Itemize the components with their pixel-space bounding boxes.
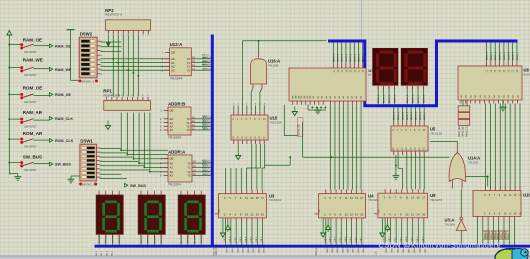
7-segment display unlit at (401.2,48.4) xyxy=(401,48,427,85)
node tag RAM_WE xyxy=(49,67,52,71)
svg-text:SW-SPDT: SW-SPDT xyxy=(24,73,37,77)
svg-text:DBUS_0: DBUS_0 xyxy=(407,94,409,103)
wires bus to U5 top xyxy=(394,107,426,121)
svg-text:DBUS_2: DBUS_2 xyxy=(495,51,497,60)
7-segment display unlit at (372.7,48.4) xyxy=(373,48,398,85)
svg-text:Y3: Y3 xyxy=(187,174,191,178)
bus DBUS bottom horizontal xyxy=(95,245,530,248)
wire U16 output to bus start xyxy=(243,40,327,52)
svg-text:DBUS_6: DBUS_6 xyxy=(420,111,422,120)
svg-text:Q: Q xyxy=(245,138,247,140)
svg-text:74LS164: 74LS164 xyxy=(270,121,282,125)
wires U8 bottom to U10 xyxy=(486,104,521,189)
svg-text:DBUS_5: DBUS_5 xyxy=(508,51,510,60)
svg-text:RAM_AR: RAM_AR xyxy=(23,110,43,115)
svg-text:SW-SPDT: SW-SPDT xyxy=(24,100,37,104)
svg-text:DB_4: DB_4 xyxy=(345,237,347,242)
svg-text:DB_1: DB_1 xyxy=(330,237,332,242)
svg-text:DB_6: DB_6 xyxy=(355,237,357,242)
IC U9 (74LS273) xyxy=(374,189,443,222)
svg-text:Q: Q xyxy=(405,149,407,151)
svg-text:DBUS_6: DBUS_6 xyxy=(513,51,515,60)
svg-text:ABUS_2: ABUS_2 xyxy=(202,167,211,170)
resistor pack RP2 xyxy=(105,8,150,37)
svg-text:Q: Q xyxy=(410,149,412,151)
svg-text:SW-SPDT: SW-SPDT xyxy=(24,125,37,129)
svg-text:DBUS_7: DBUS_7 xyxy=(363,53,365,62)
switch SW_BUS (SW-SPDT) xyxy=(8,155,49,173)
svg-text:DBUS_1: DBUS_1 xyxy=(338,53,340,62)
wires U5 bottom to U9 xyxy=(398,155,424,189)
svg-text:U12:A: U12:A xyxy=(170,42,184,47)
svg-text:ABUS_5: ABUS_5 xyxy=(202,118,211,121)
node tag RAM_OE xyxy=(49,44,52,48)
svg-text:ABUS_3: ABUS_3 xyxy=(202,170,211,173)
svg-text:DB_0: DB_0 xyxy=(224,237,226,242)
svg-text:DBUS_1: DBUS_1 xyxy=(232,244,234,253)
svg-text:CLK: CLK xyxy=(319,208,321,213)
svg-text:DBUS_7: DBUS_7 xyxy=(424,111,426,120)
ground below U8 xyxy=(502,104,504,107)
svg-text:DBUS_2: DBUS_2 xyxy=(418,94,420,103)
ground for switch rail xyxy=(17,174,19,177)
wires U4 to DBUS xyxy=(324,222,365,253)
wires inverter xyxy=(460,189,462,245)
svg-text:ABUS_1: ABUS_1 xyxy=(105,236,108,243)
svg-text:RAM_WE: RAM_WE xyxy=(458,126,461,137)
svg-text:74LS08: 74LS08 xyxy=(268,64,279,68)
svg-text:DBUS_4: DBUS_4 xyxy=(411,111,413,120)
svg-text:ADDR:B: ADDR:B xyxy=(168,101,185,106)
svg-text:74LS244: 74LS244 xyxy=(168,183,181,187)
wires U13 bottom to U4 xyxy=(331,105,361,190)
svg-text:DBUS_7: DBUS_7 xyxy=(517,51,519,60)
ground below U5 xyxy=(395,155,397,176)
svg-text:SW-SPDT: SW-SPDT xyxy=(24,50,37,54)
svg-text:DB_4: DB_4 xyxy=(245,237,247,242)
wires U3 to DBUS xyxy=(224,222,266,253)
svg-text:DBUS_1: DBUS_1 xyxy=(332,244,334,253)
svg-text:Q: Q xyxy=(397,149,399,151)
svg-text:SW_BUS: SW_BUS xyxy=(55,163,71,167)
svg-text:Q: Q xyxy=(237,138,239,140)
wires ADDR:B outputs to ABUS xyxy=(196,116,212,130)
svg-text:ABUS_3: ABUS_3 xyxy=(203,68,212,71)
svg-text:DB_2: DB_2 xyxy=(335,237,337,242)
ground below RP1 xyxy=(107,121,109,126)
svg-text:DBUS_3: DBUS_3 xyxy=(342,244,344,253)
svg-text:RESPACK-8: RESPACK-8 xyxy=(105,13,122,17)
wire U15 pin to top rail xyxy=(242,41,244,111)
svg-text:DBUS_0: DBUS_0 xyxy=(394,111,396,120)
AND gate U16:A (74LS08) xyxy=(251,52,281,89)
bus ABUS vertical xyxy=(211,35,214,247)
svg-text:DBUS_4: DBUS_4 xyxy=(248,244,250,253)
jumper blocks below U8 xyxy=(458,100,470,137)
svg-text:DBUS_0: DBUS_0 xyxy=(487,51,489,60)
wire U15 to mid net xyxy=(265,156,291,165)
svg-text:ROM_CLK: ROM_CLK xyxy=(214,245,216,256)
buffer U12:A (74LS244) xyxy=(162,42,196,80)
wires ROM_CLK and ground at 218.4 xyxy=(215,218,230,256)
IC U3 (74LS164) xyxy=(214,190,281,222)
wires RAM_CLK and ground at 318.6 xyxy=(315,218,330,256)
svg-text:Q: Q xyxy=(259,138,261,140)
wires DBUS to U8 top xyxy=(487,43,519,62)
svg-text:DBUS_2: DBUS_2 xyxy=(389,94,391,103)
svg-text:ABUS_0: ABUS_0 xyxy=(202,159,211,162)
switch ROM_OE (SW-SPDT) xyxy=(8,85,49,104)
svg-text:DB_1: DB_1 xyxy=(229,237,231,242)
svg-text:CLK: CLK xyxy=(374,251,377,256)
node tag SW_BUS xyxy=(125,183,128,187)
wire U14 output up xyxy=(430,142,457,147)
IC U13 memory (6264) xyxy=(289,64,373,105)
svg-text:ABUS_3: ABUS_3 xyxy=(118,236,121,243)
svg-text:ROM_OE: ROM_OE xyxy=(297,124,301,136)
buffer ADDR:A (74LS244) xyxy=(160,149,197,186)
IC U15 (74LS164) xyxy=(231,104,282,145)
wire bundle RP2 to row bus xyxy=(112,35,139,97)
svg-text:A3: A3 xyxy=(170,174,174,178)
svg-text:DBUS_3: DBUS_3 xyxy=(243,244,245,253)
svg-text:ROM_CLK: ROM_CLK xyxy=(55,139,74,143)
switch RAM_WE (SW-SPDT) xyxy=(8,58,49,78)
ground arrow below RP2 pin1 xyxy=(106,35,111,48)
svg-text:Q: Q xyxy=(232,138,234,140)
svg-text:DBUS_6: DBUS_6 xyxy=(258,244,260,253)
svg-text:DBUS_1: DBUS_1 xyxy=(384,94,386,103)
switch RAM_OE (SW-SPDT) xyxy=(8,37,49,54)
svg-text:U10: U10 xyxy=(523,193,530,198)
svg-text:DBUS_2: DBUS_2 xyxy=(337,244,339,253)
window edge xyxy=(0,255,530,256)
svg-text:6116: 6116 xyxy=(524,73,530,77)
wires ADDR:A outputs to ABUS xyxy=(197,160,212,175)
DSW2 left common rail xyxy=(67,30,79,81)
wire to DSW1 left xyxy=(71,175,80,177)
svg-text:DB_6: DB_6 xyxy=(256,237,258,242)
svg-text:SW_BUS: SW_BUS xyxy=(130,184,146,188)
svg-text:RAM_WE: RAM_WE xyxy=(55,68,72,72)
svg-text:ADDR:A: ADDR:A xyxy=(168,149,186,154)
svg-text:RAM_OE: RAM_OE xyxy=(462,126,465,137)
svg-text:CSDN @KnightVon-Songmasuere: CSDN @KnightVon-Songmasuere xyxy=(379,240,502,249)
wires dark display to DBUS xyxy=(407,86,425,104)
svg-text:DBUS_2: DBUS_2 xyxy=(342,53,344,62)
svg-text:DBUS_1: DBUS_1 xyxy=(398,111,400,120)
wire long net y157 xyxy=(303,122,450,158)
wire bundle DSW2 to U12 xyxy=(101,42,170,70)
svg-text:DB_7: DB_7 xyxy=(360,237,362,242)
svg-text:DBUS_3: DBUS_3 xyxy=(394,94,396,103)
svg-text:DBUS_2: DBUS_2 xyxy=(237,244,239,253)
7-segment display lit at (96.2,195) xyxy=(96,195,123,234)
svg-text:DBUS_0: DBUS_0 xyxy=(227,244,229,253)
svg-text:OE: OE xyxy=(170,109,174,113)
svg-text:DBUS_4: DBUS_4 xyxy=(350,53,352,62)
switch ROM_AR (SW-SPDT) xyxy=(8,131,49,149)
wires U15 to U3 xyxy=(226,144,265,190)
watermark logo xyxy=(495,249,528,259)
svg-text:Q: Q xyxy=(241,138,243,140)
wire bundle DSW1 to ADDR:A xyxy=(100,149,150,179)
wires display to DBUS xyxy=(180,191,203,245)
wires DBUS to U13 top xyxy=(333,43,364,64)
svg-text:DBUS_7: DBUS_7 xyxy=(363,244,365,253)
wires U9 to DBUS xyxy=(384,222,427,253)
svg-text:SW-SPDT: SW-SPDT xyxy=(24,168,37,172)
svg-text:74LS244: 74LS244 xyxy=(170,76,183,80)
svg-text:DB_5: DB_5 xyxy=(350,237,352,242)
wire U14 to U10 column xyxy=(466,176,489,187)
svg-text:DBUS_4: DBUS_4 xyxy=(347,244,349,253)
wires display to DBUS xyxy=(98,191,121,245)
grounds below U13 xyxy=(294,107,296,112)
svg-text:ABUS_0: ABUS_0 xyxy=(180,236,183,243)
svg-text:DB_7: DB_7 xyxy=(261,237,263,242)
svg-text:DBUS_1: DBUS_1 xyxy=(491,51,493,60)
NOR gate U14:A (74LS02) xyxy=(449,146,480,189)
svg-text:Q: Q xyxy=(401,149,403,151)
svg-text:Q: Q xyxy=(423,149,425,151)
svg-text:OE: OE xyxy=(170,157,174,161)
svg-text:RAM_OE: RAM_OE xyxy=(23,37,42,42)
svg-text:Q: Q xyxy=(254,138,256,140)
svg-text:SW_BUS: SW_BUS xyxy=(23,155,42,160)
inverter U3:A (74LS04) xyxy=(445,217,467,230)
svg-text:DBUS_2: DBUS_2 xyxy=(402,111,404,120)
svg-text:74LS164: 74LS164 xyxy=(269,198,281,202)
svg-text:DSW1: DSW1 xyxy=(80,139,93,144)
wire bundle to ADDR:A xyxy=(120,113,168,173)
svg-text:ROM_AR: ROM_AR xyxy=(23,131,43,136)
svg-text:DBUS_3: DBUS_3 xyxy=(500,51,502,60)
svg-text:74LS273: 74LS273 xyxy=(430,198,442,202)
sheet page boundary line xyxy=(361,0,363,40)
svg-text:ABUS_1: ABUS_1 xyxy=(202,57,211,60)
svg-text:ABUS_7: ABUS_7 xyxy=(202,126,211,129)
svg-text:SW-SPDT: SW-SPDT xyxy=(24,145,37,149)
svg-text:ABUS_0: ABUS_0 xyxy=(202,54,211,57)
svg-text:AB_3: AB_3 xyxy=(111,250,114,256)
net label ROM_OE vertical xyxy=(284,105,303,137)
svg-text:RAM_WE: RAM_WE xyxy=(23,58,43,63)
svg-text:Q: Q xyxy=(392,149,394,151)
svg-text:DBUS_5: DBUS_5 xyxy=(353,244,355,253)
svg-text:RAM_CLK: RAM_CLK xyxy=(55,117,73,121)
switch RAM_AR (SW-SPDT) xyxy=(8,110,49,129)
svg-text:DSW2: DSW2 xyxy=(80,32,93,37)
svg-text:DB_0: DB_0 xyxy=(324,237,326,242)
IC U4 (74LS273) xyxy=(315,190,381,222)
svg-text:CLK: CLK xyxy=(219,208,221,213)
svg-text:DBUS_6: DBUS_6 xyxy=(359,53,361,62)
node tag RAM_CLK xyxy=(49,117,52,121)
svg-text:ABUS_0: ABUS_0 xyxy=(98,236,101,243)
IC U5 (74LS138) xyxy=(391,122,442,156)
svg-text:DBUS_3: DBUS_3 xyxy=(423,94,425,103)
svg-text:DBUS_6: DBUS_6 xyxy=(358,244,360,253)
ground below U15 xyxy=(237,151,239,156)
resistor pack RP1 xyxy=(103,89,150,111)
svg-text:87: 87 xyxy=(368,73,371,77)
svg-text:DB_5: DB_5 xyxy=(251,237,253,242)
svg-text:DBUS_5: DBUS_5 xyxy=(354,53,356,62)
svg-text:74LS02: 74LS02 xyxy=(468,161,479,165)
svg-text:DBUS_0: DBUS_0 xyxy=(378,94,380,103)
svg-text:ABUS_3: ABUS_3 xyxy=(160,236,163,243)
svg-text:DBUS_0: DBUS_0 xyxy=(333,53,335,62)
svg-text:ABUS_3: ABUS_3 xyxy=(200,236,203,243)
svg-text:RAM_CS: RAM_CS xyxy=(465,126,468,137)
svg-text:ABUS_1: ABUS_1 xyxy=(187,236,190,243)
svg-text:ABUS_2: ABUS_2 xyxy=(202,60,211,63)
svg-text:ABUS_0: ABUS_0 xyxy=(140,236,143,243)
svg-text:DBUS_4: DBUS_4 xyxy=(504,51,506,60)
svg-text:ABUS_2: ABUS_2 xyxy=(111,236,114,243)
svg-text:DB_2: DB_2 xyxy=(235,237,237,242)
svg-text:DIPSWC_8: DIPSWC_8 xyxy=(81,80,94,83)
wires display to DBUS xyxy=(140,191,163,245)
IC U10 (74LS245) xyxy=(473,187,530,221)
svg-text:74LS138: 74LS138 xyxy=(430,132,442,136)
svg-text:DIPSWC_8: DIPSWC_8 xyxy=(82,184,95,187)
svg-text:Q: Q xyxy=(250,138,252,140)
wires dark display to DBUS xyxy=(378,86,396,104)
svg-text:DBUS_5: DBUS_5 xyxy=(253,244,255,253)
buffer ADDR:B (74LS244) xyxy=(160,101,196,139)
wires U12 outputs to ABUS xyxy=(196,56,212,70)
ground below DSW1 wire xyxy=(70,176,72,179)
svg-text:ABUS_2: ABUS_2 xyxy=(153,236,156,243)
net label stack below U10 xyxy=(478,221,515,245)
7-segment display lit at (138.2,195) xyxy=(138,195,165,234)
svg-text:RAM_CLK: RAM_CLK xyxy=(315,244,318,256)
svg-text:DBUS_3: DBUS_3 xyxy=(407,111,409,120)
svg-text:DBUS_1: DBUS_1 xyxy=(413,94,415,103)
svg-text:ABUS_3: ABUS_3 xyxy=(202,63,211,66)
node tag SW_BUS xyxy=(49,162,52,166)
svg-text:ABUS_1: ABUS_1 xyxy=(202,163,211,166)
DIP switch DSW1 xyxy=(79,139,102,187)
svg-text:A3: A3 xyxy=(171,68,175,72)
svg-text:Q: Q xyxy=(263,138,265,140)
svg-text:74LS244: 74LS244 xyxy=(168,136,181,140)
svg-text:OE: OE xyxy=(171,51,175,55)
power rail xyxy=(7,31,12,175)
svg-text:Q: Q xyxy=(418,149,420,151)
node tag ROM_CLK xyxy=(49,139,52,143)
node tag ROM_OE xyxy=(49,93,52,97)
svg-text:Y3: Y3 xyxy=(186,128,190,132)
svg-text:ABUS_1: ABUS_1 xyxy=(147,236,150,243)
IC U8 memory (6116) xyxy=(458,62,530,104)
svg-text:ABUS_6: ABUS_6 xyxy=(202,122,211,125)
svg-text:74LS04: 74LS04 xyxy=(445,222,456,226)
svg-text:DBUS_7: DBUS_7 xyxy=(264,244,266,253)
DIP switch DSW2 xyxy=(78,32,103,84)
svg-text:ABUS_4: ABUS_4 xyxy=(202,115,211,118)
svg-text:Y3: Y3 xyxy=(187,68,191,72)
svg-text:ROM_OE: ROM_OE xyxy=(55,93,72,97)
svg-text:A3: A3 xyxy=(170,128,174,132)
wires CLK and ground at 377.9 xyxy=(374,218,389,256)
svg-text:DBUS_5: DBUS_5 xyxy=(415,111,417,120)
svg-text:ABUS_2: ABUS_2 xyxy=(193,236,196,243)
7-segment display lit at (178.2,195) xyxy=(178,195,205,234)
net labels at DBUS start xyxy=(95,245,216,256)
wires U16 inputs xyxy=(251,89,262,112)
svg-text:DB_3: DB_3 xyxy=(340,237,342,242)
svg-text:RAM_OE: RAM_OE xyxy=(55,44,71,48)
svg-text:ROM_OE: ROM_OE xyxy=(23,85,43,90)
net labels on ABUS xyxy=(202,54,211,174)
svg-text:CLK: CLK xyxy=(378,208,380,213)
svg-text:DB_3: DB_3 xyxy=(240,237,242,242)
svg-text:DBUS_3: DBUS_3 xyxy=(346,53,348,62)
svg-text:Q: Q xyxy=(414,149,416,151)
svg-text:DBUS_0: DBUS_0 xyxy=(327,244,329,253)
bus DBUS upper routing xyxy=(328,41,518,106)
